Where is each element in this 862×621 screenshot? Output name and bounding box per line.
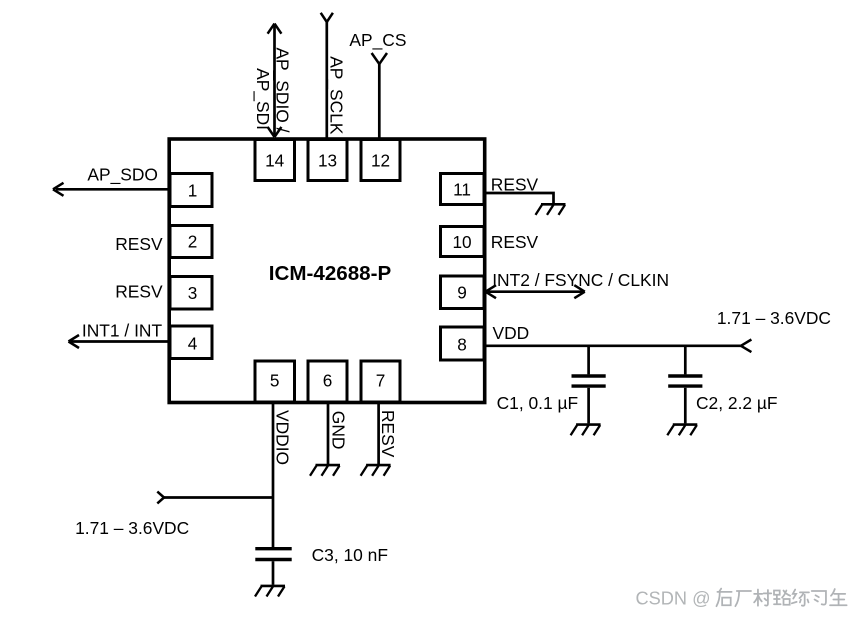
svg-text:12: 12 <box>371 151 390 171</box>
svg-text:1.71 – 3.6VDC: 1.71 – 3.6VDC <box>717 308 831 328</box>
wire pin11 RESV to ground <box>485 193 554 203</box>
pin 12 <box>361 140 400 181</box>
wire pin9 INT2 bidirectional arrow <box>486 285 585 298</box>
svg-text:11: 11 <box>453 180 471 200</box>
svg-text:4: 4 <box>188 334 198 354</box>
ground at C1 <box>571 425 601 436</box>
svg-text:AP_SCLK: AP_SCLK <box>327 56 347 135</box>
pin 11 <box>441 174 485 205</box>
ground at pin 11 <box>536 204 566 215</box>
svg-text:INT2 / FSYNC / CLKIN: INT2 / FSYNC / CLKIN <box>492 270 669 290</box>
svg-text:INT1 / INT: INT1 / INT <box>82 321 163 341</box>
svg-text:C3, 10 nF: C3, 10 nF <box>312 545 388 565</box>
wire pin6 GND <box>327 403 330 464</box>
pin 3 <box>170 277 212 310</box>
ground at C3 <box>255 586 285 597</box>
wire VDDIO horizontal with open arrow <box>157 492 273 504</box>
svg-text:2: 2 <box>188 232 198 252</box>
wire pin14 AP_SDIO bidirectional arrow <box>268 24 282 137</box>
capacitor C1 <box>572 346 606 424</box>
svg-text:3: 3 <box>188 283 198 303</box>
svg-text:5: 5 <box>270 371 280 391</box>
pin 2 <box>170 226 212 258</box>
svg-text:RESV: RESV <box>115 234 163 254</box>
pin 6 <box>308 361 347 402</box>
svg-text:1.71 – 3.6VDC: 1.71 – 3.6VDC <box>75 518 189 538</box>
svg-text:RESV: RESV <box>491 175 539 195</box>
wire pin13 AP_SCLK with open end <box>321 13 333 139</box>
IC U1 ICM-42688-P body <box>169 139 485 403</box>
svg-text:VDD: VDD <box>493 323 530 343</box>
svg-text:13: 13 <box>318 151 337 171</box>
ground at C2 <box>667 425 697 436</box>
wire pin12 AP_CS with open end <box>372 53 387 139</box>
svg-text:1: 1 <box>188 181 198 201</box>
pin 10 <box>441 227 485 257</box>
svg-text:7: 7 <box>376 371 386 391</box>
pin 4 <box>170 326 212 359</box>
pin 14 <box>255 140 295 181</box>
watermark chinese characters <box>716 589 846 607</box>
ground at pin 6 <box>310 465 340 476</box>
svg-text:GND: GND <box>328 411 348 450</box>
label AP_SDIO / AP_SDI (rotated) <box>253 47 293 132</box>
svg-text:CSDN @: CSDN @ <box>636 589 711 609</box>
pin 8 <box>441 327 485 360</box>
capacitor C2 <box>668 346 702 424</box>
svg-text:14: 14 <box>265 151 285 171</box>
pin 9 <box>441 276 485 309</box>
capacitor C3 <box>255 549 291 585</box>
pin 13 <box>308 140 347 181</box>
wire pin8 VDD rail with open arrow <box>485 340 751 353</box>
pin 1 <box>170 174 212 207</box>
wire pin7 RESV <box>377 403 380 464</box>
svg-text:6: 6 <box>323 371 333 391</box>
svg-text:AP_SDIO /: AP_SDIO / <box>273 47 293 132</box>
svg-text:10: 10 <box>452 232 471 252</box>
svg-text:C2, 2.2 µF: C2, 2.2 µF <box>696 393 778 413</box>
svg-text:9: 9 <box>457 283 467 303</box>
svg-text:RESV: RESV <box>115 282 163 302</box>
svg-text:VDDIO: VDDIO <box>273 410 293 465</box>
svg-text:ICM-42688-P: ICM-42688-P <box>269 262 392 285</box>
svg-text:AP_SDI: AP_SDI <box>253 68 273 130</box>
wire pin1 AP_SDO with output arrow <box>53 183 169 196</box>
svg-text:8: 8 <box>457 335 467 355</box>
watermark CSDN <box>636 589 711 609</box>
ground at pin 7 <box>361 465 391 476</box>
svg-text:C1, 0.1 µF: C1, 0.1 µF <box>497 393 579 413</box>
svg-text:AP_CS: AP_CS <box>349 30 406 50</box>
pin 7 <box>361 361 400 402</box>
wire pin5 VDDIO vertical <box>272 403 275 548</box>
wire pin4 INT1 with output arrow <box>69 335 170 348</box>
svg-text:RESV: RESV <box>491 232 539 252</box>
pin 5 <box>255 361 295 402</box>
svg-text:AP_SDO: AP_SDO <box>87 165 158 185</box>
svg-text:RESV: RESV <box>378 410 398 458</box>
